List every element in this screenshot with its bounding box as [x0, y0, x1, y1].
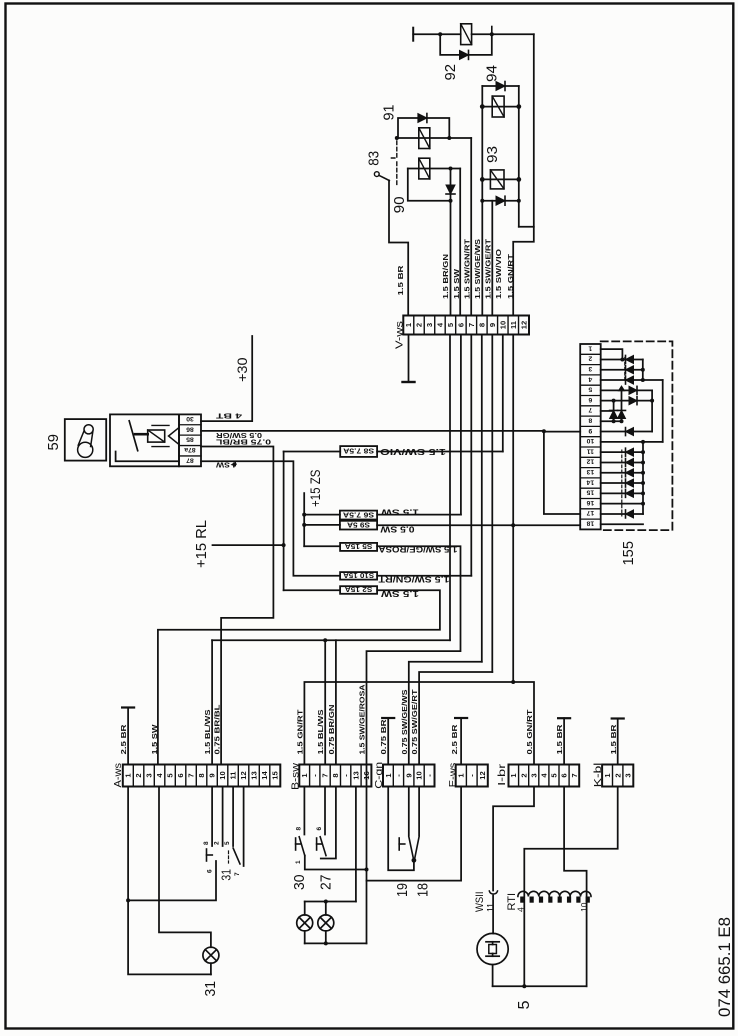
- 155 pin18 row: [601, 523, 643, 525]
- wire box 93-94 left side to V-ws pin8: [481, 86, 483, 316]
- wire V-ws5 to B-sw7 and A-ws9 (1.5 BL/WS): [212, 639, 450, 641]
- svg-text:3: 3: [624, 773, 633, 777]
- wire I-br6 bar: [558, 717, 570, 719]
- svg-text:1.5 SW/GE/ROSA: 1.5 SW/GE/ROSA: [358, 684, 367, 755]
- svg-text:S8 7.5A: S8 7.5A: [343, 447, 374, 454]
- svg-text:11: 11: [229, 771, 238, 780]
- 155 pin4 row with diode: [601, 379, 663, 381]
- node 93 left: [480, 177, 485, 182]
- svg-text:4: 4: [516, 907, 526, 912]
- svg-text:18: 18: [586, 520, 594, 527]
- node 94 left: [480, 104, 485, 109]
- wire switch83 to V-ws pin1: [389, 181, 408, 316]
- svg-text:1.5 GN/RT: 1.5 GN/RT: [295, 709, 304, 755]
- svg-text:2.5 BR: 2.5 BR: [119, 724, 128, 755]
- wire 86-branch down to 155 pin17: [544, 431, 580, 514]
- wire 93 bottom row: [482, 200, 519, 202]
- wire V-ws6 down to fuse S6: [460, 335, 462, 515]
- wire relay91 main row: [397, 137, 471, 139]
- wire S5 to B-sw16: [367, 546, 461, 764]
- wire relay92 output drop to staircase: [533, 34, 535, 227]
- node +15RL junction: [282, 543, 286, 547]
- 155 pin9 row with diode: [601, 431, 652, 433]
- ground symbol: [403, 381, 415, 383]
- svg-text:7: 7: [467, 323, 476, 327]
- 155 pin12 row with diode: [601, 461, 643, 463]
- wire V-ws9 to C-gn10: [419, 672, 492, 765]
- svg-text:6: 6: [560, 773, 569, 777]
- relay 93 row: [482, 178, 519, 180]
- svg-text:9: 9: [488, 323, 497, 327]
- svg-text:10: 10: [498, 321, 507, 329]
- 155 pin11 row with diode: [601, 451, 643, 453]
- switch 31 wires from A-ws pins 9-12: [211, 787, 213, 847]
- wire relay90 to V-ws pin5: [450, 201, 452, 316]
- svg-text:2: 2: [519, 773, 528, 777]
- svg-text:1.5 BR/GN: 1.5 BR/GN: [441, 254, 450, 299]
- wire relay90 main row: [408, 168, 460, 170]
- svg-text:0.75 SW/GE/WS: 0.75 SW/GE/WS: [400, 690, 409, 755]
- wire C-gn9 down: [408, 787, 410, 836]
- 155 pin7 row: [601, 410, 614, 412]
- 155 bus C: [651, 390, 653, 431]
- node relay92 right junction: [490, 32, 494, 36]
- 155 pin1 jog: [601, 349, 623, 359]
- wire B-sw13 to lamps: [355, 787, 357, 902]
- svg-text:7: 7: [588, 406, 592, 413]
- switch31 blade: [233, 848, 240, 864]
- wire ZS to fuse S9: [304, 524, 340, 526]
- switch30 blade: [299, 837, 305, 856]
- component 59 box: [65, 419, 106, 461]
- switch27 contact: [316, 838, 318, 850]
- node relay90 right row junction: [449, 167, 453, 171]
- relay (59) pin cells: [179, 414, 201, 466]
- svg-text:12: 12: [586, 458, 594, 465]
- wire relay90 right loop side: [450, 169, 452, 201]
- wire ZS to fuse S5: [304, 545, 340, 547]
- wire S8 to V-ws10: [377, 451, 503, 453]
- relay (59) triangle: [169, 428, 180, 445]
- 155 vertical diode on bus D: [610, 410, 618, 418]
- node relay91 left: [395, 136, 399, 140]
- 155 bus E: [621, 389, 623, 421]
- svg-text:9: 9: [404, 773, 413, 777]
- wire ZS to fuse S6: [304, 514, 340, 516]
- wire A-ws1 ground run: [128, 787, 211, 975]
- motor WSII symbol: [477, 933, 508, 964]
- svg-text:30: 30: [186, 415, 194, 422]
- svg-text:12: 12: [478, 771, 487, 779]
- svg-text:17: 17: [586, 509, 594, 516]
- svg-text:19: 19: [394, 883, 411, 897]
- svg-text:1.5 SW: 1.5 SW: [380, 508, 419, 517]
- svg-text:12: 12: [239, 771, 248, 779]
- switch31 dashed link: [228, 851, 230, 863]
- svg-text:10: 10: [586, 437, 594, 444]
- svg-text:83: 83: [366, 151, 383, 166]
- wire V-ws11 down: [512, 335, 514, 683]
- svg-text:14: 14: [260, 771, 269, 780]
- svg-text:8: 8: [197, 773, 206, 777]
- 155 pin6 row with diode: [601, 400, 652, 402]
- svg-text:0.75 SW/GE/RT: 0.75 SW/GE/RT: [410, 689, 419, 755]
- switch19 blade: [409, 837, 414, 859]
- fuse S2 15A: [340, 586, 377, 594]
- battery + bar for relay 92: [412, 28, 414, 41]
- 155 dashed link rows2-4: [624, 357, 626, 382]
- connector K-bl: [602, 765, 633, 787]
- svg-text:10: 10: [218, 771, 227, 779]
- wire C-gn1 down: [388, 787, 414, 871]
- wire relay pin30 to +30: [201, 420, 252, 422]
- lamp rail top: [305, 901, 356, 903]
- svg-text:7: 7: [321, 773, 330, 777]
- svg-text:15: 15: [271, 771, 280, 780]
- wire B-sw16 vertical continues to lamp rail: [366, 765, 368, 944]
- fuse S9 5A: [340, 521, 377, 530]
- component 59 lighter icon: [84, 425, 93, 434]
- node 93 bottom right: [517, 199, 521, 203]
- wire motor to ground rail 5: [492, 965, 494, 987]
- connector 155 pin column: [580, 344, 601, 529]
- svg-text:5: 5: [516, 1000, 533, 1009]
- svg-text:1.5 BR: 1.5 BR: [396, 265, 405, 296]
- ground wire below V-ws pin1: [408, 335, 410, 382]
- wire contact to motor: [492, 896, 494, 934]
- svg-text:13: 13: [352, 771, 361, 779]
- wire switch27 output to B-sw8: [321, 787, 336, 859]
- component 155 dashed box: [601, 341, 673, 530]
- wire bus to fuse S2: [284, 589, 341, 591]
- svg-text:074 665.1 E8: 074 665.1 E8: [716, 917, 734, 1017]
- svg-text:90: 90: [391, 196, 408, 213]
- svg-text:9: 9: [588, 427, 592, 434]
- svg-text:0.5 SW: 0.5 SW: [380, 525, 415, 534]
- 155 pin5 row with diode: [601, 389, 652, 391]
- svg-text:7: 7: [234, 872, 241, 876]
- svg-text:1.5 BR: 1.5 BR: [609, 724, 618, 755]
- node 94 right: [516, 104, 521, 109]
- wire B-sw8 drop: [335, 640, 337, 764]
- wire staircase to V-ws pin11: [513, 227, 534, 316]
- svg-text:B-sw: B-sw: [290, 762, 301, 790]
- svg-text:S9 5A: S9 5A: [347, 520, 370, 527]
- wire K-bl2 to RTI terminal 4: [524, 787, 617, 987]
- RTI coil scallops: [518, 891, 591, 896]
- fuse S8 7.5A: [340, 446, 377, 457]
- node relay90 bottom junction: [449, 199, 453, 203]
- 155 dashed link rows11-17: [621, 450, 623, 516]
- node V-ws11 x B-sw1 line: [511, 680, 515, 684]
- svg-text:1.5 GN/RT: 1.5 GN/RT: [506, 253, 515, 299]
- svg-text:0.75 BR/BL: 0.75 BR/BL: [215, 437, 271, 446]
- svg-text:15: 15: [586, 489, 594, 496]
- svg-text:1.5 BL/WS: 1.5 BL/WS: [316, 710, 325, 755]
- wire C-gn1 bar: [382, 717, 394, 719]
- svg-text:2: 2: [588, 355, 592, 362]
- svg-text:30: 30: [291, 875, 308, 891]
- diode D91: [418, 114, 427, 123]
- svg-text:1.5 BL/WS: 1.5 BL/WS: [203, 710, 212, 755]
- wire relay92 diode loop: [440, 34, 492, 55]
- node ground x switch31: [126, 898, 130, 902]
- wire box 93-94 right side: [518, 86, 520, 227]
- svg-text:14: 14: [586, 478, 594, 485]
- svg-text:C-gn: C-gn: [374, 762, 385, 789]
- node 93 bottom left: [480, 199, 484, 203]
- svg-text:5: 5: [588, 386, 592, 393]
- connector V-ws: [403, 316, 529, 335]
- svg-text:31: 31: [220, 869, 234, 881]
- svg-text:11: 11: [587, 447, 594, 454]
- svg-text:8: 8: [331, 773, 340, 777]
- diode D90: [446, 185, 455, 194]
- svg-text:9: 9: [208, 773, 217, 777]
- 155 pin10 row: [601, 441, 663, 443]
- 155 pin15 row with diode: [601, 492, 643, 494]
- diode D94: [496, 82, 505, 91]
- wire relay pin85 route to A-ws10 (0.75 BR/BL): [201, 447, 273, 765]
- connector B-sw: [299, 765, 371, 787]
- 155 pin17 row with diode: [601, 513, 643, 515]
- svg-text:6: 6: [207, 869, 214, 873]
- 155 bus A: [642, 359, 644, 380]
- svg-text:7: 7: [570, 773, 579, 777]
- 155 pin14 row with diode: [601, 482, 643, 484]
- 155 pin8 row: [601, 420, 622, 422]
- svg-text:0.5 GN/RT: 0.5 GN/RT: [525, 709, 534, 755]
- ground rail 5: [493, 985, 587, 987]
- svg-text:13: 13: [250, 771, 259, 779]
- switch30 contact: [295, 838, 297, 850]
- svg-text:S2 15A: S2 15A: [345, 585, 373, 592]
- svg-text:6: 6: [176, 773, 185, 777]
- svg-text:1: 1: [295, 860, 302, 864]
- svg-text:3: 3: [529, 773, 538, 777]
- svg-text:4 SW: 4 SW: [216, 460, 237, 469]
- switch19 contact: [398, 838, 400, 850]
- svg-text:10: 10: [579, 902, 589, 912]
- fuse S10 15A: [340, 572, 377, 580]
- svg-text:7: 7: [187, 773, 196, 777]
- wire S2 to A-ws4: [158, 590, 440, 764]
- fuse S5 15A: [340, 543, 377, 551]
- svg-text:6: 6: [457, 323, 466, 327]
- 155 pin2 row with diode: [601, 358, 643, 360]
- wire B-sw7 drop: [324, 640, 326, 764]
- RTI coil teeth: [520, 897, 524, 903]
- wire B-sw1 to I-br3 (GN/RT net): [304, 682, 534, 765]
- switch31 contact: [206, 849, 208, 861]
- wire +15RL bus vertical: [283, 452, 285, 591]
- svg-text:1.5 SW: 1.5 SW: [452, 268, 461, 299]
- 155 pin16 row: [601, 503, 643, 505]
- svg-text:10: 10: [415, 771, 424, 779]
- svg-text:2: 2: [613, 773, 622, 777]
- tick on 4 SW wire: [231, 461, 237, 466]
- svg-text:85: 85: [186, 436, 194, 443]
- 155 bus F: [642, 442, 644, 514]
- switch 83 terminal circle: [374, 172, 379, 177]
- svg-text:0.75 BR/BL: 0.75 BR/BL: [212, 704, 221, 755]
- connector A-ws: [123, 765, 280, 787]
- 155 bus D: [613, 401, 615, 422]
- svg-text:91: 91: [380, 105, 397, 121]
- wire I-br6 to RTI terminal 10: [564, 787, 587, 987]
- wire C-gn10 down: [418, 787, 420, 836]
- relay 94 row: [482, 106, 519, 108]
- svg-text:8: 8: [203, 841, 210, 845]
- svg-text:8: 8: [295, 827, 302, 831]
- relay (59) blade: [129, 421, 138, 451]
- svg-text:31: 31: [202, 981, 219, 997]
- svg-text:1.5 SW/GN/RT: 1.5 SW/GN/RT: [463, 239, 472, 299]
- lamp left: [304, 902, 306, 915]
- svg-text:S5 15A: S5 15A: [345, 542, 373, 549]
- WSII contact arc: [489, 891, 497, 894]
- relay coil 92: [461, 24, 472, 45]
- wire A-ws4 to lamp 31: [159, 787, 211, 948]
- node 86-branch T: [542, 429, 546, 433]
- svg-text:86: 86: [186, 425, 194, 432]
- svg-text:11: 11: [485, 903, 496, 912]
- svg-text:87a: 87a: [184, 446, 196, 453]
- svg-text:3: 3: [588, 365, 592, 372]
- svg-text:11: 11: [509, 320, 518, 329]
- svg-text:1.5 SW/GE/ROSA: 1.5 SW/GE/ROSA: [378, 545, 457, 554]
- 155 vertical diode on bus E: [618, 410, 626, 418]
- svg-text:8: 8: [588, 417, 592, 424]
- svg-text:+15 RL: +15 RL: [194, 520, 210, 568]
- svg-text:3: 3: [145, 773, 154, 777]
- svg-text:+30: +30: [235, 358, 250, 383]
- wire S10 to V-ws7: [377, 575, 471, 577]
- svg-text:13: 13: [586, 468, 594, 475]
- svg-text:5: 5: [224, 841, 231, 845]
- connector C-gn: [383, 765, 435, 787]
- node 93 right: [516, 177, 521, 182]
- lamp rail bottom: [305, 942, 367, 944]
- connector I-br: [509, 765, 580, 787]
- svg-text:2: 2: [134, 773, 143, 777]
- +30 riser: [251, 336, 253, 421]
- wire V-ws8 to C-gn9: [409, 662, 482, 765]
- svg-text:18: 18: [415, 883, 432, 897]
- relay (59) outer box: [110, 414, 179, 466]
- wire S6 to V-ws6: [377, 514, 461, 516]
- svg-text:K-bl: K-bl: [593, 763, 604, 788]
- relay coil 91: [419, 128, 430, 149]
- wire 86 to 155 pin9: [544, 431, 580, 433]
- svg-text:2.5 BR: 2.5 BR: [450, 724, 459, 755]
- svg-text:0.75 BR/GN: 0.75 BR/GN: [327, 705, 336, 755]
- svg-text:WSII: WSII: [474, 892, 486, 913]
- fuse S6 7.5A: [340, 511, 377, 520]
- relay coil 94: [492, 96, 504, 117]
- switch27 blade: [320, 837, 326, 856]
- svg-text:6: 6: [588, 396, 592, 403]
- connector E-ws: [456, 765, 488, 787]
- svg-text:1: 1: [588, 344, 592, 351]
- svg-text:12: 12: [519, 321, 528, 329]
- wire relay90 loop: [408, 169, 451, 201]
- lamp right: [325, 902, 327, 915]
- wire A-ws1 bar: [122, 706, 134, 708]
- svg-text:I-br: I-br: [497, 763, 508, 786]
- svg-text:93: 93: [484, 146, 501, 163]
- wire relay pin86 to 155 (0.5 SW/GR): [201, 430, 544, 432]
- switch 30 wire from B-sw1: [303, 787, 305, 835]
- wire relay91 to V-ws pin7: [470, 138, 472, 316]
- wire V-ws10 down to fuse S8: [502, 335, 504, 452]
- svg-text:92: 92: [442, 64, 459, 81]
- wire relay91 top diode branch: [398, 118, 449, 138]
- svg-text:S6 7.5A: S6 7.5A: [343, 510, 374, 517]
- svg-text:1.5 SW/GE/WS: 1.5 SW/GE/WS: [473, 239, 482, 299]
- node relay92 left junction: [438, 32, 442, 36]
- svg-text:87: 87: [186, 456, 194, 463]
- lamp 31: [203, 947, 219, 963]
- svg-text:1.5 SW: 1.5 SW: [150, 723, 159, 754]
- svg-text:V-ws: V-ws: [394, 321, 405, 349]
- wire V-ws5 down: [449, 335, 451, 641]
- svg-text:1.5 SW/GN/RT: 1.5 SW/GN/RT: [378, 574, 449, 583]
- svg-text:1.5 SW: 1.5 SW: [380, 589, 419, 598]
- wire relay92 row right: [472, 33, 534, 35]
- wire switch30 output: [305, 856, 367, 870]
- wire E-ws1 bar: [455, 717, 467, 719]
- wire box top edge: [482, 85, 519, 87]
- svg-text:94: 94: [484, 65, 501, 82]
- node S9 line x V-ws11: [511, 523, 515, 527]
- wire I-br3 to WSII motor: [493, 787, 534, 891]
- pin tick above relay92 junction: [491, 27, 493, 34]
- svg-text:27: 27: [318, 875, 335, 891]
- svg-text:2: 2: [415, 323, 424, 327]
- switch 83 dashed link to relay 91: [391, 141, 397, 158]
- 155 bus B: [662, 380, 664, 442]
- wire S9 to 155 pin18: [377, 524, 580, 526]
- wire +15 ZS bus: [303, 493, 305, 546]
- svg-text:1.5 BR: 1.5 BR: [555, 724, 564, 755]
- relay coil 90: [419, 158, 430, 179]
- wire V-ws7 down to fuse S10: [470, 335, 472, 576]
- relay coil 93: [490, 170, 504, 189]
- svg-text:+15 ZS: +15 ZS: [307, 470, 323, 508]
- node switch30 out x pin16: [365, 868, 369, 872]
- node relay91 right: [447, 136, 451, 140]
- wire +15 RL feed: [213, 544, 284, 546]
- switch18 blade: [415, 837, 420, 860]
- wire A-ws9 drop: [211, 640, 213, 764]
- svg-text:1.5 SW/VIO: 1.5 SW/VIO: [380, 447, 446, 456]
- wire V-ws9 down: [491, 335, 493, 673]
- wire relay90 to V-ws pin6: [459, 169, 461, 316]
- 155 pin3 row with diode: [601, 369, 643, 371]
- svg-text:1.5 SW/GE/RT: 1.5 SW/GE/RT: [484, 238, 493, 299]
- node ZS-S6: [302, 513, 306, 517]
- relay (59) inner wire from 87: [116, 452, 179, 462]
- svg-text:6: 6: [316, 827, 323, 831]
- svg-text:E-ws: E-ws: [448, 763, 459, 788]
- relay (59) coil: [148, 430, 165, 442]
- node ZS-S9: [302, 523, 306, 527]
- wire V-ws pin9 riser: [491, 201, 493, 316]
- svg-text:S10 15A: S10 15A: [343, 571, 374, 578]
- 155 pin13 row with diode: [601, 472, 643, 474]
- svg-text:2: 2: [214, 841, 221, 845]
